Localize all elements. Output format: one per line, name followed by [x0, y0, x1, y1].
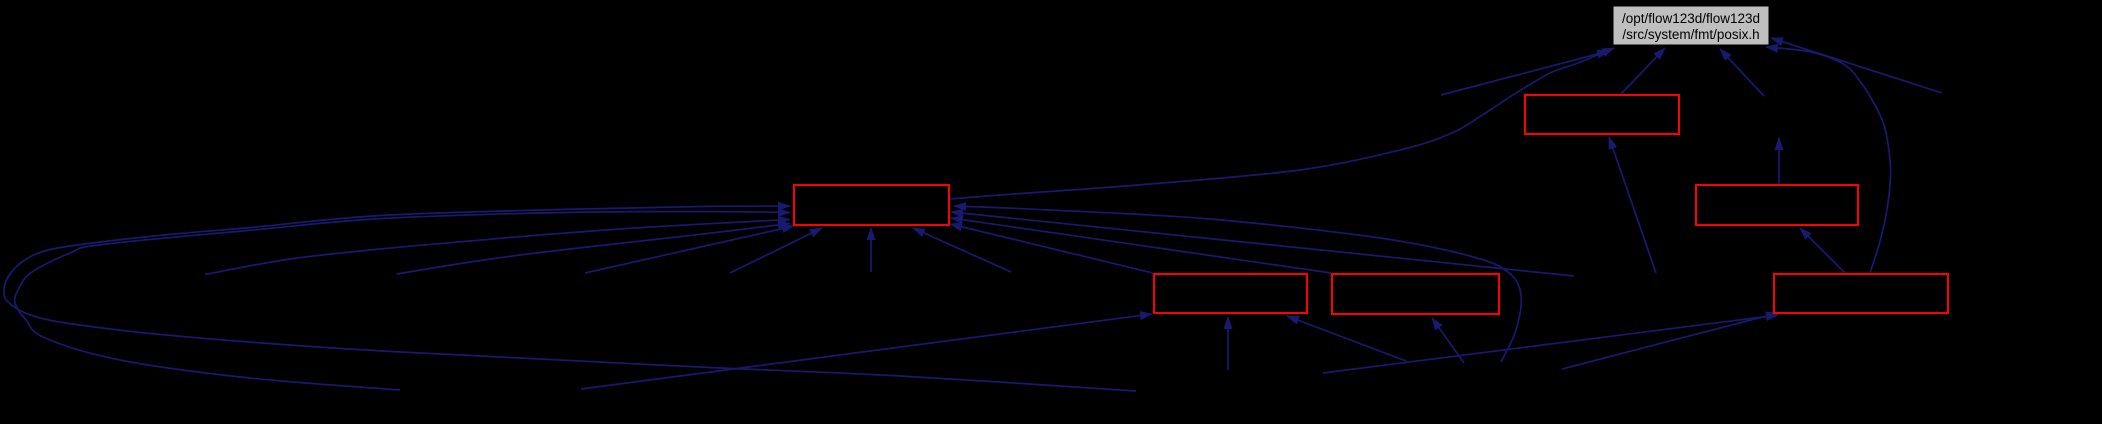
wire: edge box5 to box1 right edge — [951, 218, 1331, 273]
wire: shallow edge bottom hidden node to box6 bottom-left — [1323, 315, 1778, 373]
node root /opt/flow123d/flow123d /src/system/fmt/posix.h — [1613, 6, 1769, 45]
svg-text:/src/system/fmt/posix.h: /src/system/fmt/posix.h — [1622, 27, 1759, 42]
node box6 (red truncated node) — [1774, 274, 1948, 313]
wire: curved edge box6 to root bottom-right — [1766, 47, 1891, 273]
node box5 (red truncated node) — [1332, 274, 1499, 314]
wire: edge box6 to box3 bottom — [1800, 228, 1845, 273]
wire: edge bottom hidden node to box4 bottom-left — [581, 314, 1152, 389]
wire: edge box4 to box1 right corner — [950, 224, 1153, 273]
wire: inner left loop edge into box1 left edge — [15, 211, 790, 390]
wire: vertical edge box3 to hidden node above — [1778, 138, 1780, 184]
svg-text:/opt/flow123d/flow123d: /opt/flow123d/flow123d — [1622, 11, 1760, 26]
wire: edge hidden node to box2 bottom — [1609, 137, 1656, 273]
wire: curved edge bottom hidden node to box1 right edge — [954, 206, 1521, 362]
node box1 (red truncated node) — [794, 185, 949, 225]
wire: edge from second left hidden node into box1 left edge — [397, 224, 790, 275]
wire: edge bottom hidden node to box5 bottom — [1432, 318, 1464, 363]
wire: edge bottom hidden node to box4 bottom-right — [1287, 316, 1406, 361]
wire: edge box2 top to root node — [1621, 48, 1665, 94]
wire: long curved edge box1 to root node — [950, 48, 1614, 199]
node box2 (red truncated node) — [1525, 95, 1679, 134]
wire: edge hidden node to box1 right edge — [951, 212, 1574, 276]
node box3 (red truncated node) — [1696, 185, 1858, 225]
wire: edge from left hidden node into box1 left edge — [205, 220, 790, 275]
wire: vertical edge hidden node to box1 bottom edge — [870, 228, 872, 272]
wire: edge hidden includer to root node bottom — [1720, 49, 1764, 96]
wire: edge hidden node to box1 bottom-left corner — [585, 226, 794, 273]
wire: outer left loop edge into box1 left edge — [4, 206, 1136, 391]
wire: vertical edge bottom hidden node to box4 bottom — [1227, 317, 1229, 370]
wire: edge hidden includer to root node — [1441, 51, 1609, 95]
wire: steep edge bottom hidden node to box6 left corner — [1562, 313, 1778, 369]
wire: edge far-right hidden includer to root right edge — [1771, 38, 1942, 93]
wire: edge hidden node to box1 bottom right — [913, 228, 1011, 272]
wire: edge hidden node to box1 bottom edge — [730, 228, 822, 273]
node box4 (red truncated node) — [1154, 274, 1307, 313]
